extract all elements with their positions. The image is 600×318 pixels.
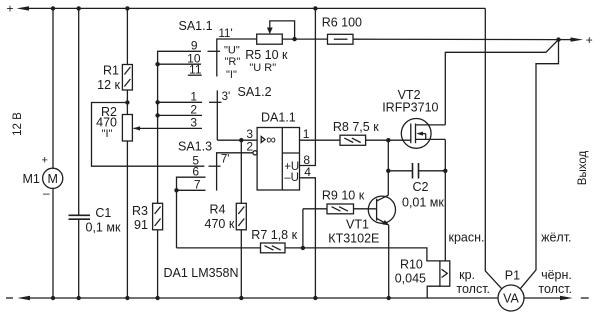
stub SA1.1 pin 11 (188, 74, 202, 76)
svg-text:∞: ∞ (266, 132, 276, 147)
svg-text:R6 100: R6 100 (322, 16, 362, 30)
capacitor C2 (388, 163, 445, 210)
svg-text:DA1.1: DA1.1 (261, 110, 296, 124)
transistor VT1 КТ3102Е (328, 195, 395, 245)
svg-text:91: 91 (134, 218, 148, 232)
svg-text:0,01 мк: 0,01 мк (402, 196, 444, 210)
switch SA1.1 (179, 19, 257, 81)
node C2 left (386, 169, 390, 173)
node ground / op-amp pin 4 (313, 296, 317, 300)
svg-text:–: – (43, 186, 50, 200)
svg-text:7': 7' (221, 154, 230, 166)
svg-text:11: 11 (189, 63, 202, 77)
svg-text:470 к: 470 к (205, 217, 235, 231)
node R7/R9/R10 (301, 246, 305, 250)
wire op-amp pin 1 to R8 (300, 139, 341, 141)
node top rail / M1 (51, 6, 55, 10)
wire VT2 drain to + output node (445, 40, 558, 125)
svg-text:C2: C2 (413, 180, 429, 194)
svg-text:"U R": "U R" (249, 62, 276, 74)
resistor R9 10к (303, 189, 377, 214)
capacitor C1 (69, 8, 121, 298)
svg-text:чёрн.: чёрн. (541, 268, 572, 282)
svg-text:SA1.3: SA1.3 (178, 140, 212, 154)
dash minus bottom left (6, 297, 13, 299)
svg-text:1: 1 (303, 127, 310, 141)
svg-text:КТ3102Е: КТ3102Е (328, 232, 379, 246)
resistor R1 12к (97, 8, 132, 114)
node C2 right (443, 169, 447, 173)
node R1/R2 junction (125, 100, 129, 104)
svg-text:M1: M1 (23, 172, 40, 186)
svg-text:VT1: VT1 (346, 218, 369, 232)
wire ground (minus) bottom rail (29, 297, 499, 299)
wire R8 to VT2 gate (366, 139, 411, 141)
svg-text:VA: VA (503, 292, 519, 306)
svg-text:SA1.2: SA1.2 (238, 85, 272, 99)
svg-text:C1: C1 (95, 206, 111, 220)
svg-text:12 к: 12 к (97, 78, 120, 92)
svg-text:0,1 мк: 0,1 мк (86, 221, 121, 235)
wire SA1.2 pin 1 (158, 101, 202, 103)
svg-text:R10: R10 (400, 258, 423, 272)
switch SA1.2 (209, 85, 272, 140)
svg-text:Выход: Выход (577, 151, 589, 186)
dash minus bottom right (581, 297, 589, 299)
svg-text:IRFP3710: IRFP3710 (382, 101, 438, 115)
wire VT1 emitter to ground rail (388, 225, 390, 298)
potentiometer R2 470 (96, 105, 132, 298)
svg-text:9: 9 (191, 39, 198, 53)
node ground / R3 (155, 296, 159, 300)
svg-text:3: 3 (190, 116, 197, 130)
svg-text:толст.: толст. (538, 282, 572, 296)
svg-text:6: 6 (192, 165, 199, 179)
meter P1 VA (498, 269, 524, 312)
svg-text:7: 7 (194, 178, 201, 192)
wire + rail to meter P1 (red) (485, 8, 502, 289)
+12V input terminal arrow (7, 2, 30, 16)
wire SA1.1 pin 10 (158, 63, 201, 65)
node ground / M1 (51, 296, 55, 300)
node ground / R4 (239, 296, 243, 300)
svg-text:R8 7,5 к: R8 7,5 к (333, 120, 379, 134)
svg-text:"I": "I" (226, 69, 237, 81)
svg-text:12 В: 12 В (12, 112, 24, 136)
node ground / R2 (125, 296, 129, 300)
switch SA1.3 (178, 140, 253, 191)
svg-text:M: M (47, 172, 57, 186)
svg-text:жёлт.: жёлт. (541, 231, 571, 245)
svg-text:3': 3' (222, 91, 231, 103)
node bus pin 1 (155, 100, 159, 104)
svg-text:"I": "I" (102, 128, 113, 140)
svg-text:P1: P1 (505, 269, 520, 283)
transistor VT2 IRFP3710 (MOSFET) (382, 88, 445, 148)
node bus pin 2 (155, 113, 159, 117)
svg-text:R7 1,8 к: R7 1,8 к (251, 228, 297, 242)
svg-text:R4: R4 (210, 203, 226, 217)
wire op-amp pin 8 (+U) to top rail (300, 8, 316, 165)
svg-text:+: + (7, 2, 14, 16)
resistor R7 1,8к (177, 228, 303, 253)
node top rail / R1 (125, 6, 129, 10)
wire SA1.3 pin 7 (177, 189, 206, 191)
svg-text:0,045: 0,045 (395, 272, 426, 286)
svg-text:красн.: красн. (449, 231, 485, 245)
resistor R8 7,5к (333, 120, 379, 145)
svg-text:толст.: толст. (456, 282, 490, 296)
node pins 6-7 join (174, 188, 178, 192)
wire R9 left to R7 node (302, 209, 304, 248)
svg-text:"U": "U" (224, 45, 240, 57)
svg-text:+: + (42, 155, 48, 167)
wire VT2 source down to shunt R10 (444, 139, 446, 261)
wire meter to - output (524, 297, 562, 299)
op-amp DA1.1 (246, 110, 311, 190)
svg-text:SA1.1: SA1.1 (179, 19, 213, 33)
wire op-amp pin 4 (-U) to ground rail (300, 178, 316, 298)
potentiometer R5 10к (245, 21, 327, 74)
ground terminal arrow bottom left (17, 296, 30, 300)
node R8 / gate / VT1 collector (386, 138, 390, 142)
wire R7 node to shunt R10 top (303, 248, 440, 261)
wire + output node to meter P1 (yellow) (520, 40, 558, 289)
svg-text:1: 1 (190, 90, 197, 104)
resistor R6 100 (322, 16, 559, 45)
motor M1 (23, 8, 63, 298)
wire SA1.3 pins 6,7 to R7 (177, 177, 206, 248)
node R5 wiper (292, 37, 296, 41)
wire top +12V rail (27, 7, 485, 9)
node top rail / op-amp +U (313, 6, 317, 10)
wire SA1.2 pin 2 (158, 114, 202, 116)
node + output (556, 37, 560, 41)
svg-text:R3: R3 (132, 204, 148, 218)
wire R8 node to VT1 collector (387, 140, 389, 195)
wire R2 wiper to SA1.2 pin 3 (133, 126, 202, 130)
svg-text:R5 10 к: R5 10 к (245, 48, 288, 62)
resistor R3 91 (132, 203, 163, 298)
svg-text:2: 2 (190, 103, 197, 117)
svg-text:R1: R1 (103, 64, 119, 78)
svg-text:2: 2 (246, 140, 253, 154)
node op-amp pin 3 / R4 (239, 138, 243, 142)
svg-text:11': 11' (219, 28, 233, 40)
wire R4 to op-amp pin 3 (240, 140, 242, 203)
node top rail / C1 (77, 6, 81, 10)
wire SA1.2 common to op-amp pin 3 (217, 139, 257, 141)
+ output terminal arrow (571, 33, 593, 47)
svg-text:–U: –U (284, 172, 299, 184)
shunt R10 0,045 (395, 258, 450, 299)
svg-text:"R": "R" (225, 56, 241, 68)
wire SA1.1 pin 9 / ground bus / resistor R3 chain (158, 51, 201, 203)
svg-text:R9 10 к: R9 10 к (322, 189, 365, 203)
svg-text:+: + (586, 33, 593, 47)
node bus pin 10 (155, 62, 159, 66)
svg-text:DA1 LM358N: DA1 LM358N (164, 266, 239, 280)
svg-text:4: 4 (304, 165, 311, 179)
wire R1/R2 junction to SA1.3 pin 5 (92, 103, 205, 167)
node ground / C1 (77, 296, 81, 300)
- output terminal arrow (560, 296, 573, 300)
resistor R4 470к (205, 203, 247, 299)
svg-text:кр.: кр. (459, 268, 475, 282)
node ground / VT1 emitter (387, 296, 391, 300)
